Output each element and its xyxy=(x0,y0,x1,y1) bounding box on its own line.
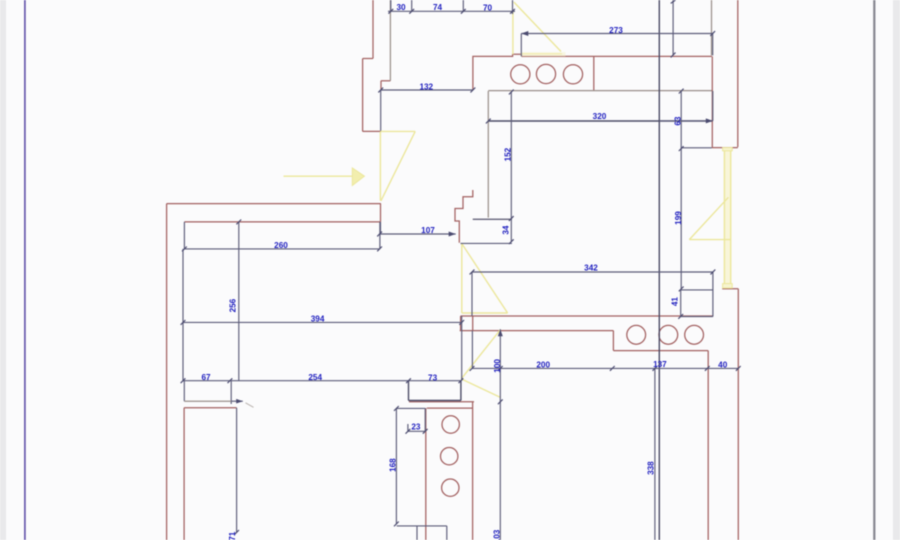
sheet left gray edge xyxy=(0,0,6,540)
bath door swing diagonal xyxy=(462,244,508,313)
wall hall bottom edge xyxy=(184,221,380,223)
oven column left edge xyxy=(425,408,427,540)
bath left wall xyxy=(487,91,489,218)
dim 34 extensions xyxy=(461,219,512,243)
kitchen counter outline with notch xyxy=(473,54,522,90)
entry arrow head xyxy=(352,168,364,186)
window cap bottom xyxy=(723,284,733,288)
dim 132 line xyxy=(381,89,473,91)
dim 273 line xyxy=(521,33,712,35)
window cap top xyxy=(723,148,733,151)
oven circle 1 xyxy=(442,416,459,433)
hob circle 2 xyxy=(536,64,555,83)
wall hall left outer xyxy=(166,204,168,540)
living wall cap inner xyxy=(472,316,474,331)
svg-text:260: 260 xyxy=(274,241,288,250)
arrowhead dim 100 top end xyxy=(498,329,503,336)
balcony door swing diagonal xyxy=(689,197,728,239)
dim 256 extension long vertical xyxy=(238,222,240,381)
wall right window sill xyxy=(722,288,738,290)
oven circle 2 xyxy=(441,448,458,465)
counter lower step xyxy=(612,331,614,351)
dim 100/103 vertical line xyxy=(499,329,501,540)
wall gray vertical top entry xyxy=(389,0,391,81)
dim 63 side vertical xyxy=(712,91,714,121)
wall shaft inner top xyxy=(381,80,391,82)
dim 23 line xyxy=(408,430,425,432)
niche bottom line xyxy=(681,147,712,149)
arrowhead dim 63 leader xyxy=(706,118,713,123)
hall doorway box left vertical xyxy=(183,381,185,402)
svg-text:30: 30 xyxy=(396,3,406,12)
dim 152 line xyxy=(510,92,512,219)
top right gray jamb vertical xyxy=(711,0,713,55)
dim 41 extensions xyxy=(681,290,713,317)
wardrobe top edge xyxy=(184,407,237,409)
wall shaft jog xyxy=(363,58,373,60)
svg-text:40: 40 xyxy=(718,361,728,370)
wall shaft inner right xyxy=(380,81,382,90)
dim 260 line xyxy=(184,248,379,250)
window glazing line 2 xyxy=(730,151,732,284)
wall right inner vertical xyxy=(707,351,709,540)
living wall top edge xyxy=(461,315,713,317)
balcony door swing bottom xyxy=(689,239,730,241)
window glazing line 1 xyxy=(723,151,725,284)
hob circle 1 xyxy=(511,65,530,84)
dim chain left extension xyxy=(471,331,473,369)
svg-text:132: 132 xyxy=(419,82,433,91)
below box line xyxy=(397,525,447,527)
sink circle 3 xyxy=(685,325,704,344)
kitchen door swing diagonal 1 xyxy=(461,330,500,379)
sink circle 1 xyxy=(627,325,646,344)
bath door swing chord xyxy=(462,312,508,314)
dim 107 extension xyxy=(380,222,382,234)
wall hall top edge xyxy=(167,203,381,205)
dim 342 line xyxy=(472,271,713,273)
dim 63 leader xyxy=(659,120,713,122)
dim 41 line xyxy=(680,290,682,317)
svg-text:171: 171 xyxy=(228,531,237,540)
wardrobe right edge dim line 171 xyxy=(236,408,238,533)
dim chain 30/74/70 line xyxy=(388,10,515,12)
wall right jamb vertical xyxy=(711,56,713,147)
svg-text:394: 394 xyxy=(311,315,325,324)
top door swing diagonal xyxy=(514,2,561,52)
wall top right sill xyxy=(712,147,738,149)
svg-text:256: 256 xyxy=(229,298,238,312)
svg-text:200: 200 xyxy=(536,360,550,369)
entry arrow shaft xyxy=(284,175,353,177)
hob circle 3 xyxy=(563,65,582,84)
dim 23 extensions xyxy=(408,408,425,431)
kitchen door sill red xyxy=(409,401,474,403)
oven column right edge xyxy=(472,402,474,540)
kitchen door swing diagonal 2 xyxy=(461,379,500,397)
bath door jamb staircase xyxy=(455,190,473,243)
top door leaf pale band xyxy=(521,52,566,56)
shaft inner right lower (ext of dim 132) xyxy=(380,90,382,131)
top right ext vertical with ticks xyxy=(672,0,674,55)
svg-text:107: 107 xyxy=(421,226,435,235)
wardrobe left edge xyxy=(183,408,185,540)
svg-text:73: 73 xyxy=(428,374,438,383)
svg-text:70: 70 xyxy=(483,3,493,12)
counter right edge xyxy=(593,56,595,90)
svg-text:199: 199 xyxy=(674,211,683,225)
svg-text:273: 273 xyxy=(609,26,623,35)
wall hall right cap xyxy=(380,204,382,222)
svg-text:152: 152 xyxy=(503,147,512,161)
counter lower front edge xyxy=(613,350,708,352)
dim 338 line xyxy=(654,368,656,540)
dim 63 line xyxy=(680,91,682,149)
dim chain 30/74/70 extension lines xyxy=(391,0,513,14)
svg-text:67: 67 xyxy=(201,373,211,382)
sink circle 2 xyxy=(659,325,678,344)
dim 168 line xyxy=(395,408,397,524)
sheet right gray edge xyxy=(893,0,900,540)
wall top right outer xyxy=(737,0,739,147)
oven circle 3 xyxy=(442,479,459,496)
bath interior line xyxy=(488,120,713,122)
sheet right border dark line xyxy=(873,0,875,540)
bath bottom wall xyxy=(473,218,512,220)
svg-text:320: 320 xyxy=(593,112,607,121)
svg-text:342: 342 xyxy=(584,264,598,273)
svg-text:23: 23 xyxy=(411,422,421,431)
hall door swing top xyxy=(380,130,415,132)
dim 107 line xyxy=(380,233,456,235)
svg-text:74: 74 xyxy=(433,3,443,12)
dim 394 left extension xyxy=(182,249,184,381)
dim 342 extensions xyxy=(472,272,713,317)
svg-text:137: 137 xyxy=(653,360,667,369)
dim 199 line xyxy=(680,149,682,289)
wall shaft bottom xyxy=(363,130,381,132)
tick marks xyxy=(181,0,741,535)
dim 394 line xyxy=(183,321,462,323)
living wall left cap xyxy=(460,316,462,331)
wall shaft left side xyxy=(362,59,364,132)
hall doorway box right vertical xyxy=(230,381,232,404)
kitchen doorway box bottom xyxy=(409,400,461,402)
wall top long edge xyxy=(522,55,712,57)
dim 260 extensions xyxy=(184,222,380,249)
hall door swing vertical xyxy=(379,132,381,201)
dim 168 top extension xyxy=(396,407,425,409)
dim 394 right extension xyxy=(461,316,463,381)
counter lower top edge xyxy=(460,330,614,332)
dim 273 extensions xyxy=(521,34,712,57)
svg-text:254: 254 xyxy=(308,373,322,382)
oven column top edge xyxy=(427,407,473,409)
window glazing fill xyxy=(724,151,730,284)
bath top wall xyxy=(488,90,713,92)
svg-text:103: 103 xyxy=(492,529,501,540)
wall right outer vertical xyxy=(737,289,739,540)
svg-text:34: 34 xyxy=(502,225,511,235)
svg-text:168: 168 xyxy=(388,458,397,472)
hall doorway box bottom xyxy=(184,400,231,402)
top door swing vertical xyxy=(512,11,514,54)
svg-text:100: 100 xyxy=(493,359,502,373)
svg-text:63: 63 xyxy=(673,116,682,126)
dim 34 line xyxy=(510,219,512,242)
top door swing chord xyxy=(521,53,563,55)
svg-text:338: 338 xyxy=(646,461,655,475)
svg-text:41: 41 xyxy=(671,297,680,307)
wall top-left shaft right side upper xyxy=(372,0,374,59)
hall door swing diagonal xyxy=(381,131,415,201)
bath door swing vertical xyxy=(461,244,463,313)
hall doorway swing dashes xyxy=(246,403,254,408)
below box verticals xyxy=(417,526,447,540)
arrowhead dim 107 right end xyxy=(449,232,456,237)
hall doorway leader with arrow xyxy=(231,400,243,402)
arrowhead dim 273 left end xyxy=(521,31,528,36)
dim chain 67/254/73 line xyxy=(183,380,461,382)
kitchen doorway box verticals xyxy=(409,381,461,401)
drawing frame left purple line xyxy=(24,0,26,540)
section long vertical line xyxy=(658,0,660,540)
dim chain 200/137/40 line xyxy=(472,367,738,369)
